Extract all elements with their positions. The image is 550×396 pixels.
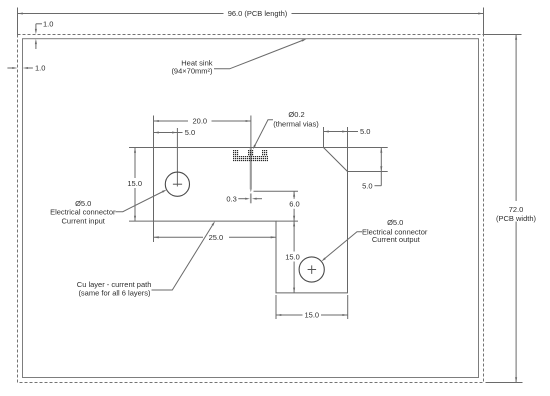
leader arrow to heat sink edge	[302, 39, 307, 42]
ext line chamfer bottom right (5.0 vert dim)	[348, 171, 388, 173]
svg-text:96.0 (PCB length): 96.0 (PCB length)	[228, 9, 288, 18]
ext line 15.0 left top	[129, 147, 154, 149]
ext line 15.0 left bottom	[129, 220, 154, 222]
ext line top edge right (5.0 vert dim)	[324, 147, 388, 149]
leader arrow to via field	[253, 145, 256, 150]
centerline input connector (5.0 dim)	[176, 128, 178, 187]
ext line 72.0 top	[484, 34, 522, 36]
Cu layer current-path outline (L-shape with chamfer)	[154, 148, 348, 293]
arrow right to PCB left edge	[12, 67, 17, 69]
svg-text:15.0: 15.0	[127, 179, 142, 188]
svg-text:1.0: 1.0	[43, 19, 53, 28]
electrical connector current input (O5.0 circle)	[165, 172, 189, 196]
arrow left to heat-sink left edge	[23, 67, 28, 69]
svg-text:Current output: Current output	[372, 235, 421, 244]
svg-text:1.0: 1.0	[35, 64, 45, 73]
dim line 15.0 bottom	[276, 314, 348, 316]
dim 0.3 left tail	[238, 198, 245, 200]
ext line shape left edge up (20.0/5.0 dims)	[153, 116, 155, 148]
dim line 20.0	[154, 120, 251, 122]
ext line 72.0 bottom	[486, 382, 523, 384]
output connector cross horizontal	[308, 269, 317, 271]
svg-text:Electrical connector: Electrical connector	[50, 207, 116, 216]
arrow up to heat-sink edge	[35, 39, 37, 44]
svg-text:Ø5.0: Ø5.0	[387, 218, 403, 227]
ext line chamfer start up (5.0 dim)	[323, 127, 325, 148]
leader arrow to output connector	[321, 258, 325, 262]
leader thermal vias label	[254, 120, 273, 147]
dim line 15.0 right	[293, 221, 295, 293]
svg-text:5.0: 5.0	[185, 128, 195, 137]
leader arrow to input connector	[162, 190, 167, 193]
svg-text:(thermal vias): (thermal vias)	[273, 120, 319, 129]
svg-text:5.0: 5.0	[360, 127, 370, 136]
dim line 72.0 PCB width	[515, 35, 517, 383]
svg-text:(94×70mm²): (94×70mm²)	[171, 67, 213, 76]
leader Cu layer label	[152, 224, 214, 291]
dim line 15.0 left	[134, 148, 136, 222]
dim 1.0 left tail outside	[7, 67, 12, 69]
dim line 96.0 PCB length	[18, 13, 484, 15]
ext line 15.0 bottom right	[347, 295, 349, 319]
leader arrow to Cu path edge	[212, 221, 215, 226]
leader heat sink label	[214, 40, 304, 69]
tail right of 1.0 arrows	[28, 67, 33, 69]
dim 1.0 top gap leader	[36, 23, 42, 25]
tail to 5.0 chamfer vert text	[375, 185, 382, 187]
ext line shape right edge up through chamfer (5.0 dim)	[347, 127, 349, 172]
leader current input label	[115, 191, 164, 212]
input connector center tick	[173, 183, 182, 185]
arrow down to PCB edge	[35, 29, 37, 34]
svg-text:Current input: Current input	[62, 216, 106, 225]
svg-text:15.0: 15.0	[304, 311, 319, 320]
ext line 25.0 left down	[153, 221, 155, 242]
svg-text:5.0: 5.0	[362, 181, 372, 190]
slot centerline extension below	[250, 194, 252, 204]
svg-text:72.0: 72.0	[509, 205, 524, 214]
svg-text:0.3: 0.3	[226, 194, 236, 203]
ext line 96.0 left	[17, 8, 19, 36]
ext line slot centerline up (20.0 dim)	[250, 116, 252, 148]
dim 0.3 right tail	[256, 198, 262, 200]
thermal slot 0.3 wide (gray bar)	[250, 148, 252, 189]
dim line 5.0 chamfer horiz	[324, 131, 359, 133]
svg-text:15.0: 15.0	[285, 252, 300, 261]
thermal via field (O0.2 vias)	[233, 150, 238, 156]
electrical connector current output (O5.0 circle)	[299, 257, 324, 282]
ext line 15.0 bottom left	[275, 295, 277, 319]
svg-text:20.0: 20.0	[192, 117, 207, 126]
leader current output label	[324, 232, 362, 260]
slot end arrow	[250, 189, 252, 192]
dim line 5.0 left	[154, 132, 183, 134]
dim line 5.0 chamfer vert	[380, 148, 382, 186]
svg-text:Ø0.2: Ø0.2	[288, 110, 304, 119]
output connector cross vertical	[311, 265, 313, 274]
svg-text:6.0: 6.0	[289, 200, 299, 209]
svg-text:(PCB width): (PCB width)	[496, 214, 537, 223]
dim line 25.0	[154, 236, 277, 238]
svg-text:(same for all 6 layers): (same for all 6 layers)	[78, 289, 151, 298]
heat sink outline (solid) 94x70	[23, 39, 479, 378]
ext line slot bottom right (6.0 dim)	[254, 190, 299, 192]
ext line step edge right (6.0/15.0 dims)	[276, 220, 298, 222]
PCB outline (dashed) 96x72	[18, 35, 484, 383]
ext line 96.0 right	[483, 8, 485, 36]
dim line 6.0	[293, 191, 295, 221]
svg-text:25.0: 25.0	[209, 233, 224, 242]
tail below 1.0 arrows	[35, 44, 37, 49]
